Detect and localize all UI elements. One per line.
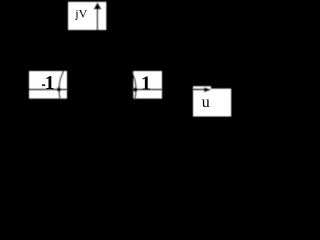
halo strip above u axis arrow (white) (193, 86, 211, 88)
label box +1 (white) (133, 71, 162, 99)
label box -1 (white) (29, 71, 67, 99)
svg-text:jV: jV (74, 7, 87, 21)
node z=+1 dot (133, 88, 137, 92)
label -1 (42, 84, 45, 86)
label box jV (white) (68, 2, 106, 30)
svg-text:1: 1 (141, 73, 151, 95)
svg-text:u: u (202, 94, 210, 111)
svg-text:1: 1 (45, 72, 55, 94)
imaginary axis arrowhead (94, 2, 102, 9)
imaginary axis (jV) wire (96, 8, 98, 30)
unit circle (59, 51, 136, 128)
label box u (white) (193, 89, 231, 117)
node z=-1 dot (57, 87, 61, 91)
real axis (u) wire (29, 89, 206, 91)
real axis arrowhead (204, 87, 211, 92)
